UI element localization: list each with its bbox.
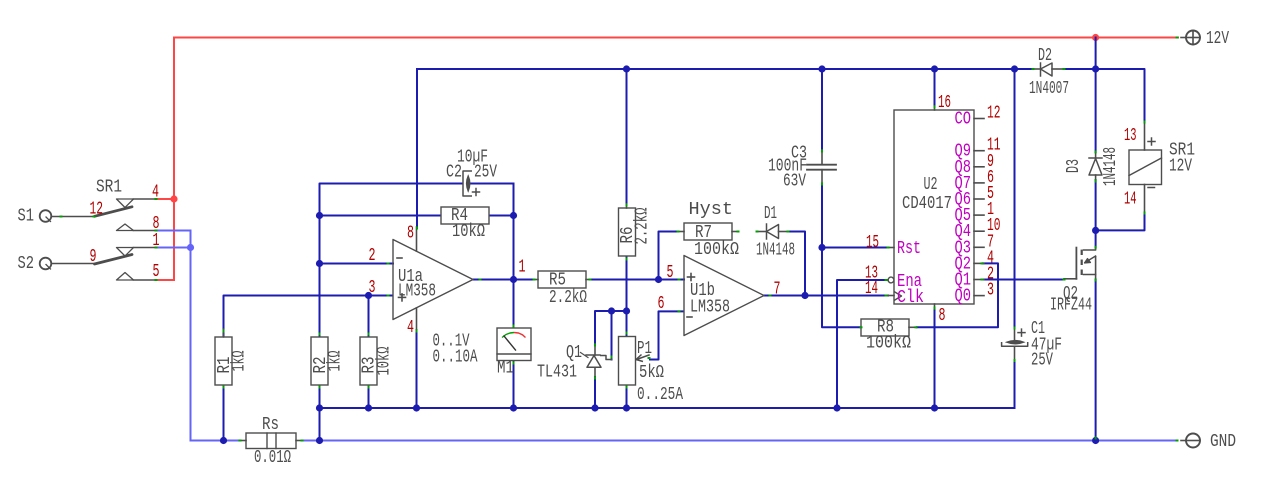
node 12V junction at relay contact pin 4 [170,195,177,202]
svg-text:Rs: Rs [262,415,279,435]
svg-text:LM358: LM358 [690,298,730,318]
relay coil SR1 [1129,150,1162,185]
svg-text:M1: M1 [497,359,514,379]
potentiometer P1 [619,337,636,386]
svg-text:LM358: LM358 [398,282,436,302]
connection ticks [60,216,63,218]
U2 Ena bubble [888,277,894,283]
C2 plus sign [473,191,480,193]
wire contact pin 4 stub [156,198,174,200]
relay contact SR1 lever upper (S1) [95,207,133,217]
resistor R8 [861,319,909,336]
svg-text:6: 6 [658,294,665,314]
U2 pin16 stub [934,106,936,110]
wire R4 left stub [320,215,442,217]
transistor Q2 IRFZ44 gate [1064,278,1076,280]
wire R5 right to U1b pin5 [590,279,684,281]
U2 pin Q9 stub [974,150,984,152]
svg-text:Clk: Clk [897,288,924,308]
U2 Rst stub [888,247,894,249]
wire R6 top vertical [626,69,628,204]
svg-text:8: 8 [407,224,414,244]
wire V+ secondary rail [417,68,1033,70]
svg-text:9: 9 [90,247,97,267]
svg-text:D3: D3 [1064,159,1084,173]
wire TL431 cathode node horizontal [595,311,627,344]
U1a minus marker [397,257,402,259]
P1 wiper arrow [637,355,650,360]
node junction R1 at GND rail [220,437,227,444]
svg-text:1N4148: 1N4148 [1101,147,1121,186]
svg-text:25V: 25V [474,163,497,183]
wire P1 wiper to U1b pin6 [649,311,684,359]
svg-text:5: 5 [667,263,674,283]
node junction TL431 ref [608,307,615,314]
U1a plus marker [399,296,406,298]
svg-text:SR1: SR1 [96,178,122,198]
contact pin 1 triangle [117,248,134,257]
node junction R6 / P1 top [623,307,630,314]
svg-text:P1: P1 [637,339,652,359]
wire R8 left to Rst/C3 vertical [822,184,861,327]
U2 pin CO stub [974,118,984,120]
svg-text:2.2kΩ: 2.2kΩ [549,288,587,308]
U2 pin Q7 stub [974,182,984,184]
wire pin 8 stub gray [134,230,157,232]
U1a pin8 stub [416,227,418,251]
node junction R2 at analog rail [316,404,323,411]
diode D1 1N4148 [766,224,768,239]
wire rail end up to C1 bottom [1014,361,1016,408]
U2 pin Q2 stub [974,262,984,264]
node junction R4 left on pin2 vertical [316,212,323,219]
diode D3 1N4148 [1095,152,1097,158]
wire P1 top stub [626,311,628,337]
svg-text:Hyst: Hyst [689,200,734,220]
svg-text:63V: 63V [783,172,806,192]
wire 12V vertical to relay contacts [173,38,175,281]
wire P1 bottom [626,385,628,408]
terminal 12V [1181,37,1186,39]
svg-text:5: 5 [153,262,160,282]
wire relay coil top branch [1096,69,1145,122]
wire R6 bottom to TL431 node [626,256,628,311]
wire contact pin 5 stub [156,279,174,281]
U2 pin Q0 stub [974,295,984,297]
node junction Ena at bottom rail [833,404,840,411]
node junction Q2 source at GND rail [1092,437,1099,444]
wire D1 right elbow down to output [788,232,805,296]
svg-text:5kΩ: 5kΩ [639,363,664,383]
svg-text:1: 1 [519,258,526,278]
node junction P1 at rail [623,404,630,411]
U1a pin4 stub [416,308,418,330]
wire D3 bottom stub [1095,180,1097,230]
wire feedback vertical C2/R4 right to output and M1 [513,184,515,329]
node junction R3 top on pin3 wire [365,292,372,299]
wire pin 1 stub gray [134,247,157,249]
wire TL431 anode down [594,377,596,408]
wire D2 cathode to rail [1015,68,1034,70]
node junction C3 / Rst / R8 [818,244,825,251]
node junction M1 at bottom rail [510,404,517,411]
U2 pin8 stub [934,304,936,309]
switch S2 terminal [40,258,52,270]
Q2 drain lead [1083,247,1096,250]
capacitor C1 47uF [1014,329,1016,341]
wire pin 4 stub gray [134,198,157,200]
svg-text:S1: S1 [18,207,35,227]
node V+ rail junction R6 [623,65,630,72]
wire S2 to lever pivot [53,263,95,265]
wire U1a pin8 vertical [416,69,418,227]
node junction R4 right / C2 right [510,212,517,219]
wire 12V dropdown to D2/D3/relay [1095,38,1097,153]
wire analog rail to GND rail link [319,408,321,441]
wire contact pin 1 to vertical [156,247,191,249]
node junction D3 bottom / Q2 drain [1092,227,1099,234]
svg-text:4: 4 [152,183,159,203]
node junction U1a output / feedback / M1 [510,276,517,283]
resistor Rs shunt [246,433,296,449]
node junction link at GND rail [316,437,323,444]
Q2 source lead [1083,256,1096,275]
resistor R3 [360,337,377,385]
terminal GND [1181,440,1186,442]
switch S1 terminal [40,210,52,222]
capacitor C3 [821,150,823,165]
wire Q2 source down to GND rail [1095,280,1097,441]
SR1 plus sign [1148,141,1155,143]
wire Q2 drain vertical [1095,230,1097,247]
node junction U1b output / D1 feedback [801,292,808,299]
svg-text:Q0: Q0 [955,287,972,307]
svg-text:10kΩ: 10kΩ [452,222,485,242]
node V+ rail junction C3 [818,65,825,72]
svg-text:100kΩ: 100kΩ [694,240,739,260]
svg-text:C2: C2 [446,163,462,183]
wire R1 bottom [223,385,225,441]
wire R7 left elbow down to pin5 net [659,232,679,280]
relay contact SR1 lever lower (S2) [95,255,133,265]
resistor R7 Hyst [684,223,732,240]
wire contact pin 8 to vertical [156,230,191,232]
wire 12V rail [174,37,1178,39]
svg-text:25V: 25V [1031,351,1053,371]
svg-text:U2: U2 [924,175,938,195]
svg-text:14: 14 [1124,190,1137,210]
Q2 bulk arrow [1085,256,1096,263]
wire analog bottom rail [320,407,1015,409]
node junction switch pin 1 [187,244,194,251]
svg-text:100kΩ: 100kΩ [866,334,911,354]
wire GND rail from Rs to GND terminal [302,440,1177,442]
resistor R2 [311,337,328,385]
node junction pin2 input [316,260,323,267]
wire V+ rail down to C1 [1014,69,1016,328]
wire Rst pin to C3/R8 net [822,247,888,249]
wire R2 bottom [319,385,321,408]
U2 Clk edge-trigger mark [894,292,902,301]
wire relay coil bottom to D3 bottom [1096,213,1145,230]
svg-text:CO: CO [955,110,972,130]
resistor R1 [215,337,232,385]
svg-text:16: 16 [938,93,951,113]
contact pin 8 triangle [117,224,134,231]
wire TL431 ref vertical [611,311,613,360]
capacitor C2 [463,171,472,196]
wire U1b output to U2 Clk [764,295,888,297]
wire U2 Q1 output to Q2 gate [982,279,1064,281]
wire C2 right elbow [470,183,514,185]
svg-text:Q1: Q1 [566,343,582,363]
SR1 pin13 stub [1144,122,1146,150]
wire R4 right stub [489,215,514,217]
op-amp U1a [393,240,473,320]
wire switch common vertical down to GND rail [190,231,192,441]
svg-text:0..10A: 0..10A [433,348,478,368]
wire Ena pin to bottom rail [837,280,886,408]
svg-text:1kΩ: 1kΩ [326,350,346,371]
wire U2 pin8 down to rail [934,309,936,408]
U1b plus marker [688,276,695,278]
C1 plus sign [1018,332,1025,334]
wire R3 top stub [368,296,370,338]
svg-text:7: 7 [774,280,781,300]
node 12V junction above D2 branch [1092,34,1099,41]
svg-text:12V: 12V [1169,157,1192,177]
svg-text:2.2kΩ: 2.2kΩ [633,207,653,244]
svg-text:D1: D1 [764,204,777,224]
wire U1a output to R5 left [473,279,534,281]
svg-text:8: 8 [939,306,946,326]
wire R3 bottom [368,385,370,408]
wire M1 bottom to rail [513,361,515,408]
svg-text:12V: 12V [1206,29,1229,49]
U2 pin Q1 stub [974,279,984,281]
svg-text:12: 12 [987,104,1001,124]
node V+ rail junction U2 pin16 [931,65,938,72]
wire U1a pin4 down to rail [416,330,418,408]
node junction U2 pin8 at rail [931,404,938,411]
SR1 minus sign [1148,187,1155,189]
node junction D2 / D3 / relay branch [1092,65,1099,72]
U2 pin Q4 stub [974,230,984,232]
svg-text:GND: GND [1210,432,1236,452]
contact pin 5 triangle [117,273,134,281]
svg-text:2: 2 [369,246,376,266]
svg-text:1kΩ: 1kΩ [230,350,250,371]
svg-text:D2: D2 [1038,46,1052,66]
resistor R5 [538,271,586,288]
wire D2 anode to 12V branch [1064,68,1096,70]
IC U2 CD4017 body [894,110,974,304]
U1b minus marker [687,316,692,318]
svg-text:1N4007: 1N4007 [1029,79,1069,99]
U2 pin Q6 stub [974,198,984,200]
svg-text:TL431: TL431 [537,363,577,383]
diode D2 1N4007 [1040,63,1042,76]
transistor Q1 TL431 [594,344,596,355]
U2 pin Q8 stub [974,166,984,168]
wire U2 Q2 output to R8 right [916,263,998,327]
svg-text:15: 15 [866,233,879,253]
node junction R3 at analog rail [365,404,372,411]
svg-text:1: 1 [153,231,160,251]
wire R1 top to U1a pin3 [224,296,394,338]
contact pin 4 triangle [117,199,134,208]
svg-text:4: 4 [407,318,414,338]
svg-text:0..25A: 0..25A [637,385,683,405]
svg-text:1N4148: 1N4148 [756,241,795,261]
wire C3 top stub [821,69,823,150]
svg-text:3: 3 [987,281,994,301]
U2 pin Q3 stub [974,246,984,248]
node junction U1a pin4 at rail [413,404,420,411]
svg-text:CD4017: CD4017 [902,194,952,214]
wire pin 5 stub gray [134,279,157,281]
wire C2 left / R4 left / pin2 vertical [320,184,464,338]
resistor R4 [441,207,489,224]
svg-text:3: 3 [369,278,376,298]
meter M1 [497,328,531,361]
svg-text:IRFZ44: IRFZ44 [1050,296,1092,316]
svg-text:Rst: Rst [897,239,921,259]
resistor R6 [619,208,636,256]
svg-text:12: 12 [90,200,104,220]
Q2 channel dashes [1081,250,1083,255]
node junction TL431 anode at rail [591,404,598,411]
wire S1 to lever pivot [53,216,95,218]
wire GND rail left segment to Rs [191,440,241,442]
node junction V+ rail / D2 / C1 branch [1011,65,1018,72]
node junction R7 hysteresis tap on pin5 wire [655,276,662,283]
svg-text:0.01Ω: 0.01Ω [254,448,291,468]
wire U1a pin2 input [320,263,394,265]
U2 pin Q5 stub [974,214,984,216]
Q1 label leader [581,353,589,358]
svg-text:14: 14 [865,279,878,299]
svg-text:S2: S2 [18,254,35,274]
svg-text:13: 13 [1124,126,1137,146]
svg-text:10kΩ: 10kΩ [375,346,395,375]
SR1 pin14 stub [1144,185,1146,214]
wire U2 pin16 stub [934,69,936,106]
op-amp U1b [684,256,764,336]
